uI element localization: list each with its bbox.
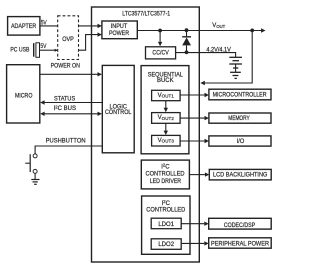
arrow VOUT1 to VOUT2: [165, 101, 167, 109]
block LDO2: [151, 239, 181, 250]
block INPUT POWER: [102, 21, 137, 39]
wire STATUS: [44, 102, 102, 104]
svg-text:ADAPTER: ADAPTER: [11, 24, 37, 30]
wire branch to CC/CV: [159, 31, 161, 43]
svg-text:PC USB: PC USB: [10, 48, 29, 54]
block VOUT2: [152, 113, 181, 124]
battery ground: [230, 71, 241, 73]
block I2C CONTROLLED LDOs: [142, 196, 190, 254]
wire LDO1 to CODEC/DSP: [181, 223, 204, 225]
wire INPUT POWER to VOUT: [137, 30, 261, 32]
wire I2C BUS: [44, 113, 98, 115]
svg-text:LDO1: LDO1: [158, 222, 174, 228]
svg-text:5V: 5V: [40, 43, 47, 50]
wire LDO2 to PERIPHERAL POWER: [181, 242, 204, 244]
svg-text:CODEC/DSP: CODEC/DSP: [224, 223, 255, 229]
junction dot (diode bottom): [185, 50, 189, 54]
svg-text:BUCK: BUCK: [157, 78, 174, 84]
wire VOUT3 to I/O: [180, 140, 204, 142]
svg-text:INPUT: INPUT: [111, 24, 128, 30]
svg-text:MICROCONTROLLER: MICROCONTROLLER: [213, 93, 267, 99]
svg-text:POWER ON: POWER ON: [51, 64, 80, 70]
block LDO1: [151, 218, 181, 229]
svg-text:PERIPHERAL POWER: PERIPHERAL POWER: [211, 242, 270, 248]
junction dot (vout rail): [250, 29, 254, 33]
USB connector symbol: [33, 43, 34, 57]
svg-text:I2C: I2C: [162, 199, 171, 207]
block MICRO: [7, 65, 40, 123]
svg-text:4.2V/4.1V: 4.2V/4.1V: [206, 47, 230, 53]
block VOUT1: [152, 90, 181, 100]
svg-text:5V: 5V: [41, 19, 48, 26]
block I/O: [209, 136, 271, 146]
wire usb to OVP: [40, 49, 56, 51]
svg-text:POWER: POWER: [109, 31, 130, 37]
wire OVP to INPUT POWER (adapter path): [79, 25, 98, 27]
block LCD BACKLIGHTING: [209, 169, 271, 180]
svg-text:I/O: I/O: [237, 139, 245, 145]
svg-text:VOUT2: VOUT2: [158, 115, 175, 121]
svg-text:MEMORY: MEMORY: [228, 116, 250, 122]
svg-text:MICRO: MICRO: [15, 94, 33, 100]
battery: [229, 56, 242, 58]
block PERIPHERAL POWER: [209, 238, 272, 248]
svg-text:CONTROLLED: CONTROLLED: [146, 207, 186, 213]
svg-text:LCD BACKLIGHTING: LCD BACKLIGHTING: [213, 173, 268, 179]
wire VOUT2 to MEMORY: [180, 117, 204, 119]
wire adapter to OVP: [40, 25, 58, 27]
block MICROCONTROLLER: [209, 89, 271, 100]
svg-text:PUSHBUTTON: PUSHBUTTON: [46, 138, 86, 144]
block I2C CONTROLLED LED DRIVER: [141, 160, 189, 189]
block VOUT3: [152, 135, 181, 146]
wire POWER ON: [40, 73, 98, 75]
block MEMORY: [209, 113, 271, 123]
diode (ideal diode): [186, 31, 188, 37]
svg-text:CC/CV: CC/CV: [152, 50, 168, 56]
wire OVP to INPUT POWER (usb path): [79, 35, 98, 51]
svg-text:CONTROLLED: CONTROLLED: [146, 172, 186, 178]
block ADAPTER: [8, 17, 40, 35]
ground (pushbutton): [31, 179, 39, 181]
IC outline LTC3577: [92, 7, 200, 262]
junction dot at OVP edge: [55, 49, 59, 52]
block CC/CV: [146, 47, 176, 59]
svg-text:LED DRIVER: LED DRIVER: [150, 179, 182, 185]
wire PUSHBUTTON: [35, 146, 102, 154]
svg-text:VOUT1: VOUT1: [158, 93, 175, 99]
block CODEC/DSP: [209, 218, 272, 229]
wire CC/CV to battery: [176, 53, 236, 58]
arrow VOUT2 to VOUT3: [165, 123, 167, 131]
svg-text:LDO2: LDO2: [158, 242, 174, 248]
OVP dashed box: [58, 16, 79, 60]
svg-text:OVP: OVP: [62, 37, 74, 43]
wire LED DRIVER to LCD BACKLIGHTING: [189, 174, 205, 176]
junction dot (CC/CV branch): [158, 29, 162, 33]
svg-text:I2C BUS: I2C BUS: [54, 104, 76, 112]
svg-text:CONTROL: CONTROL: [105, 110, 132, 116]
svg-text:LTC3577/LTC3577-1: LTC3577/LTC3577-1: [122, 11, 171, 17]
block SEQUENTIAL BUCK: [141, 66, 189, 154]
wire VOUT rail down and into IC: [205, 31, 253, 84]
svg-text:I2C: I2C: [161, 163, 170, 171]
svg-text:VOUT: VOUT: [212, 23, 225, 29]
block LOGIC CONTROL: [102, 65, 134, 152]
svg-text:VOUT3: VOUT3: [158, 138, 175, 144]
svg-text:STATUS: STATUS: [54, 96, 75, 102]
pushbutton switch: [33, 154, 37, 158]
wire VOUT1 to MICROCONTROLLER: [180, 94, 204, 96]
junction dot (diode top): [185, 28, 189, 32]
